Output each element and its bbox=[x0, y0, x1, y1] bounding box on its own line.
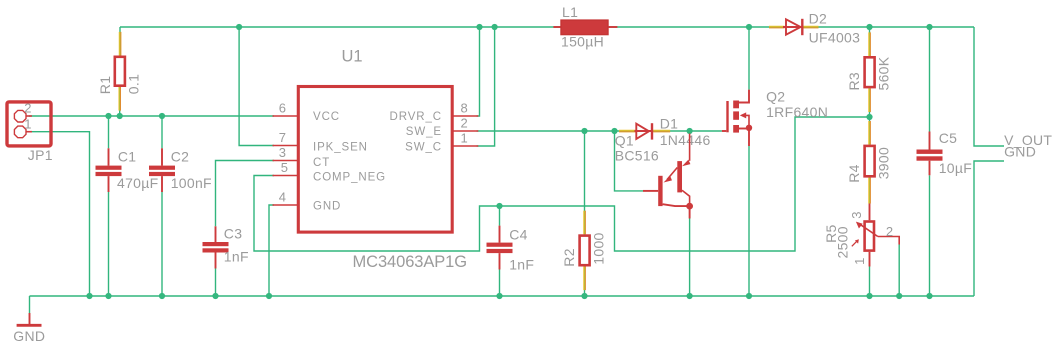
JP1 pin 1 octagon bbox=[14, 126, 26, 138]
U1 pin 8 DRVR_C stub bbox=[452, 115, 478, 117]
svg-text:R3: R3 bbox=[846, 72, 862, 91]
Q2 gate bar bbox=[726, 101, 728, 132]
wire Q2 drain top bbox=[748, 27, 750, 90]
wire C5 top bbox=[929, 27, 931, 132]
junction VCC C2 bbox=[159, 113, 165, 119]
svg-text:560K: 560K bbox=[876, 56, 892, 90]
junction top rail pin1 column bbox=[492, 24, 498, 30]
pin overlap R1 top bbox=[119, 32, 122, 56]
Q1 collector junction dot bbox=[686, 203, 693, 210]
svg-text:U1: U1 bbox=[342, 48, 363, 66]
Q2 body arrowhead bbox=[740, 112, 746, 118]
svg-text:470µF: 470µF bbox=[117, 175, 158, 191]
svg-text:3900: 3900 bbox=[876, 147, 892, 179]
Q1 T2 base bar bbox=[677, 161, 682, 192]
wire C3 bottom bbox=[215, 269, 217, 297]
diode D2 bbox=[783, 26, 802, 28]
svg-text:BC516: BC516 bbox=[615, 147, 659, 163]
svg-text:150µH: 150µH bbox=[561, 33, 604, 49]
U1 pin 4 GND stub bbox=[273, 204, 299, 206]
wire DRVR_C pin8 to top rail bbox=[477, 27, 480, 116]
wire R1 bottom stub bbox=[119, 87, 121, 116]
svg-text:1: 1 bbox=[852, 258, 867, 265]
Q1 T1 emitter arrowhead bbox=[664, 176, 673, 183]
capacitor C3 bbox=[203, 226, 229, 268]
junction rail R2 bbox=[581, 293, 587, 299]
wire VCC line bbox=[29, 115, 274, 117]
svg-text:0.1: 0.1 bbox=[126, 74, 142, 94]
wire R3 bottom bbox=[869, 88, 871, 117]
junction rail Q2 bbox=[746, 293, 752, 299]
svg-text:10µF: 10µF bbox=[939, 160, 972, 176]
wire R1 top stub bbox=[119, 27, 121, 56]
junction D1 cathode node bbox=[687, 128, 693, 134]
svg-text:VCC: VCC bbox=[313, 111, 340, 123]
svg-text:Q2: Q2 bbox=[766, 89, 785, 105]
Q1 T1 base bar bbox=[658, 176, 662, 206]
wire R5 wiper return bbox=[898, 245, 900, 297]
svg-text:COMP_NEG: COMP_NEG bbox=[313, 172, 386, 184]
diode D1 bbox=[635, 130, 652, 132]
wire IPK_SEN to top rail bbox=[239, 27, 274, 146]
wire Q2 source to rail bbox=[748, 146, 750, 296]
pin overlap R2 bottom bbox=[583, 267, 586, 291]
Q2 source junction dot bbox=[746, 125, 752, 131]
wire R2 bottom bbox=[584, 267, 586, 297]
svg-text:C2: C2 bbox=[171, 149, 190, 165]
junction C4 top bbox=[496, 203, 502, 209]
svg-text:1000: 1000 bbox=[591, 232, 607, 264]
wire CT to C3 bbox=[216, 161, 275, 227]
Q1 T2 emitter vertical bbox=[689, 134, 691, 161]
capacitor C4 bbox=[487, 226, 513, 270]
junction rail C4 bbox=[496, 293, 502, 299]
wire C4 top bbox=[499, 206, 501, 226]
svg-text:2500: 2500 bbox=[835, 226, 851, 258]
transistor Q1 BC516 darlington bbox=[643, 134, 693, 219]
svg-text:1N4446: 1N4446 bbox=[660, 132, 711, 148]
Q2 body link bbox=[746, 115, 749, 127]
pin overlap D2 anode bbox=[769, 26, 785, 29]
wire COMP_NEG feedback path bbox=[254, 117, 870, 251]
svg-text:R4: R4 bbox=[846, 164, 862, 183]
JP1 pin 2 stub bbox=[27, 115, 32, 117]
svg-text:8: 8 bbox=[461, 101, 468, 116]
svg-text:C5: C5 bbox=[939, 130, 958, 146]
svg-text:6: 6 bbox=[279, 101, 286, 116]
Q1 T2 emitter arrowhead bbox=[682, 160, 690, 167]
wire Q1 base bbox=[615, 131, 644, 191]
wire C2 bottom bbox=[161, 192, 163, 296]
transistor Q2 1RF640N mosfet bbox=[722, 90, 752, 146]
pin overlap R4 top bbox=[868, 121, 871, 145]
R5 adjust arrow bbox=[852, 241, 857, 246]
junction R3 R4 divider bbox=[866, 114, 872, 120]
pin overlap D1 cathode bbox=[653, 130, 670, 133]
pin overlap D1 anode bbox=[619, 130, 636, 133]
R5 pin3 stub bbox=[869, 204, 871, 221]
resistor R1 bbox=[115, 57, 125, 86]
wire GND label right bbox=[974, 161, 1004, 296]
svg-text:D1: D1 bbox=[660, 116, 679, 132]
wire C2 top bbox=[161, 116, 163, 148]
wire R2 top vertical bbox=[584, 131, 586, 234]
junction rail R5 pin1 bbox=[866, 293, 872, 299]
junction top rail Q2 drain bbox=[746, 24, 752, 30]
R5 adjust arrowhead bbox=[855, 239, 859, 243]
svg-text:GND: GND bbox=[313, 201, 341, 213]
wire V_OUT drop right bbox=[974, 27, 1004, 146]
inductor L1 bbox=[553, 26, 561, 28]
pin overlap R2 top bbox=[583, 211, 586, 235]
capacitor C5 bbox=[917, 132, 943, 176]
wire SW_E pin2 line bbox=[477, 130, 722, 132]
wire C1 bottom bbox=[108, 192, 110, 296]
svg-text:JP1: JP1 bbox=[28, 147, 53, 163]
wire SW_C pin1 to top rail bbox=[477, 27, 495, 146]
junction SW_E Q1 base bbox=[611, 128, 617, 134]
connector JP1 bbox=[7, 102, 51, 146]
svg-text:R1: R1 bbox=[97, 76, 113, 95]
U1 pin 3 CT stub bbox=[273, 160, 299, 162]
R5 body bbox=[865, 222, 874, 251]
wire JP1 pin1 to ground rail bbox=[29, 132, 90, 296]
junction top rail pin8 column bbox=[476, 24, 482, 30]
Q2 channel drain segment bbox=[733, 101, 739, 109]
svg-text:1nF: 1nF bbox=[224, 248, 249, 264]
svg-text:L1: L1 bbox=[562, 4, 578, 20]
U1 pin 2 SW_E stub bbox=[452, 130, 478, 132]
junction rail C2 bbox=[159, 293, 165, 299]
Q2 gate stub bbox=[722, 130, 726, 132]
Q2 drain link bbox=[739, 90, 749, 103]
capacitor C1 bbox=[96, 148, 122, 192]
R5 pin1 stub bbox=[869, 252, 871, 267]
Q1 base pin bbox=[643, 190, 658, 192]
R5 pin2 wiper wire bbox=[878, 237, 899, 245]
junction top rail C5 bbox=[926, 24, 932, 30]
junction rail C3 bbox=[212, 293, 218, 299]
svg-text:MC34063AP1G: MC34063AP1G bbox=[353, 253, 467, 271]
trimmer R5 bbox=[852, 204, 899, 267]
Q2 channel source segment bbox=[733, 125, 739, 133]
svg-text:2: 2 bbox=[886, 224, 893, 239]
svg-text:SW_E: SW_E bbox=[406, 126, 442, 138]
junction SW_E R2 bbox=[581, 128, 587, 134]
svg-text:2: 2 bbox=[461, 116, 468, 131]
Q1 T1 collector diagonal bbox=[663, 204, 690, 206]
svg-text:GND: GND bbox=[1004, 143, 1036, 159]
svg-text:7: 7 bbox=[279, 130, 286, 145]
Q2 source pin down bbox=[748, 128, 750, 146]
svg-text:3: 3 bbox=[849, 211, 864, 218]
svg-text:2: 2 bbox=[24, 101, 31, 116]
wire top rail bbox=[120, 26, 974, 28]
resistor R2 bbox=[580, 236, 590, 266]
svg-text:C1: C1 bbox=[118, 149, 136, 165]
wire Q1 collector to rail bbox=[689, 219, 691, 297]
U1 pin 6 VCC stub bbox=[273, 115, 299, 117]
U1 pin 7 IPK_SEN stub bbox=[273, 145, 299, 147]
resistor R4 bbox=[865, 146, 875, 176]
JP1 pin 2 octagon bbox=[14, 110, 26, 122]
junction rail R5 wiper bbox=[896, 293, 902, 299]
svg-text:3: 3 bbox=[279, 145, 286, 160]
junction VCC R1 bbox=[117, 113, 123, 119]
pin overlap R1 bottom bbox=[118, 87, 121, 111]
Q2 source link bbox=[739, 128, 749, 130]
wire GND symbol stub bbox=[29, 296, 31, 313]
Q1 T2 collector diagonal bbox=[682, 190, 690, 206]
svg-text:GND: GND bbox=[13, 328, 45, 344]
junction top rail IPK column bbox=[236, 24, 242, 30]
svg-text:1: 1 bbox=[24, 117, 31, 132]
svg-text:DRVR_C: DRVR_C bbox=[390, 111, 442, 123]
svg-text:C4: C4 bbox=[509, 227, 528, 243]
junction rail U1 GND bbox=[266, 293, 272, 299]
svg-text:IPK_SEN: IPK_SEN bbox=[313, 142, 368, 154]
svg-text:CT: CT bbox=[313, 157, 330, 169]
svg-text:R2: R2 bbox=[561, 248, 577, 267]
svg-text:UF4003: UF4003 bbox=[809, 29, 861, 45]
junction VCC C1 bbox=[105, 113, 111, 119]
svg-text:Q1: Q1 bbox=[615, 133, 634, 149]
svg-text:1: 1 bbox=[461, 131, 468, 146]
junction rail C1 bbox=[105, 293, 111, 299]
IC U1 box bbox=[298, 87, 452, 233]
resistor R3 bbox=[865, 57, 875, 87]
svg-text:5: 5 bbox=[281, 160, 288, 175]
U1 pin 5 COMP_NEG stub bbox=[273, 175, 299, 177]
wire R3 top bbox=[869, 27, 871, 56]
wire R4 top bbox=[869, 117, 871, 145]
svg-text:1nF: 1nF bbox=[509, 256, 534, 272]
wire C5 bottom bbox=[929, 175, 931, 296]
junction rail C5 bbox=[926, 293, 932, 299]
svg-text:C3: C3 bbox=[224, 225, 243, 241]
U1 pin 1 SW_C stub bbox=[452, 145, 478, 147]
wire bottom ground rail bbox=[30, 295, 975, 297]
svg-text:4: 4 bbox=[279, 190, 286, 205]
ground symbol GND bbox=[29, 313, 31, 325]
wire U1 GND pin4 to rail bbox=[269, 205, 274, 296]
capacitor C2 bbox=[149, 148, 175, 192]
JP1 pin 1 stub bbox=[27, 131, 32, 133]
svg-text:100nF: 100nF bbox=[171, 175, 212, 191]
pin overlap R3 bottom bbox=[868, 88, 871, 112]
Q1 collector pin down bbox=[689, 206, 691, 218]
pin overlap R3 top bbox=[868, 32, 871, 56]
wire R5 pin1 to rail bbox=[869, 267, 871, 297]
junction top rail R3 bbox=[866, 24, 872, 30]
wire R4 bottom bbox=[869, 178, 871, 204]
R5 wiper diagonal bbox=[861, 225, 878, 237]
pin overlap R4 bottom bbox=[868, 178, 871, 204]
wire C1 top bbox=[108, 116, 110, 148]
Q2 channel body segment bbox=[733, 111, 739, 119]
Q1 T1 emitter diagonal bbox=[667, 168, 677, 180]
pin overlap D2 cathode bbox=[804, 26, 819, 29]
wire C4 bottom bbox=[499, 270, 501, 297]
svg-text:1RF640N: 1RF640N bbox=[766, 104, 828, 120]
junction rail JP1 bbox=[86, 293, 92, 299]
junction rail Q1 bbox=[687, 293, 693, 299]
R5 wiper arrowhead bbox=[856, 222, 863, 229]
svg-text:D2: D2 bbox=[809, 10, 828, 26]
svg-text:SW_C: SW_C bbox=[405, 142, 442, 154]
